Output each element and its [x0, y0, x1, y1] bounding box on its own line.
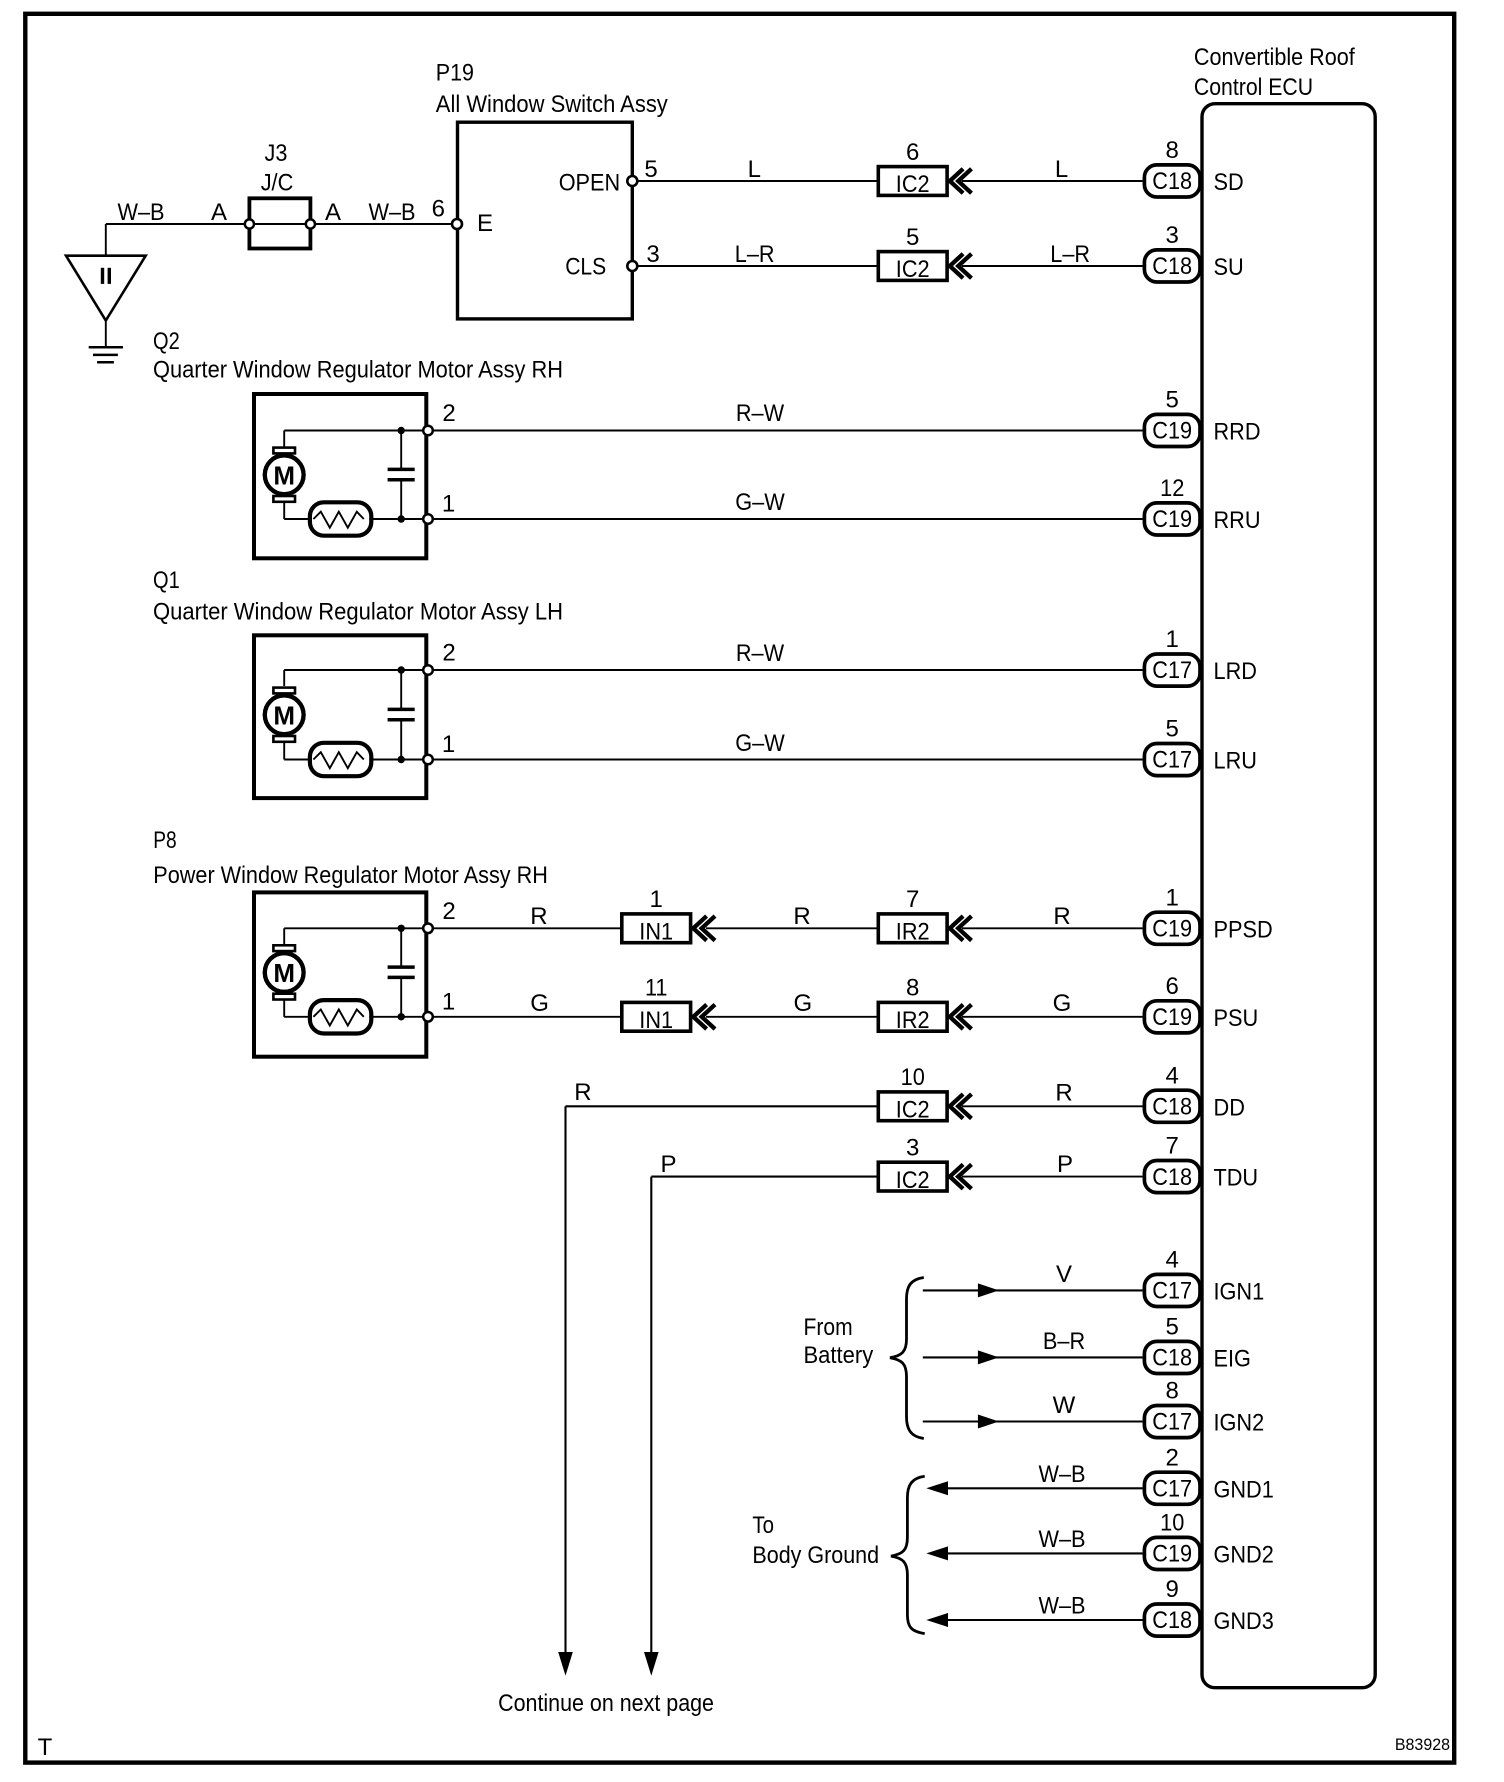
connector C18 pin 7 (TDU) [1144, 1161, 1200, 1193]
svg-text:EIG: EIG [1214, 1345, 1251, 1372]
pin 2 terminal [423, 426, 433, 436]
svg-text:IGN2: IGN2 [1214, 1410, 1265, 1437]
svg-text:R–W: R–W [736, 640, 785, 667]
circuit breaker (thermistor) [310, 743, 371, 776]
svg-text:IC2: IC2 [896, 1097, 930, 1124]
svg-text:C18: C18 [1152, 253, 1192, 280]
wire motor bottom through breaker to pin 1 [283, 502, 285, 519]
svg-text:M: M [273, 700, 295, 730]
svg-text:J/C: J/C [261, 170, 294, 197]
svg-text:L–R: L–R [735, 241, 775, 268]
svg-text:11: 11 [645, 975, 668, 1002]
wire G: IN1 to IR2 [706, 1016, 877, 1018]
svg-text:PPSD: PPSD [1214, 916, 1273, 943]
motor M [265, 695, 304, 734]
wire V from battery to IGN1 [923, 1289, 1143, 1291]
svg-text:G: G [530, 990, 549, 1017]
connector C17 pin 1 (LRD) [1144, 654, 1200, 686]
svg-text:R: R [1055, 1080, 1072, 1107]
connector IR2 pin 7 [878, 914, 947, 943]
capacitor [400, 928, 402, 967]
svg-text:4: 4 [1166, 1062, 1179, 1089]
svg-text:G: G [1053, 990, 1072, 1017]
svg-text:C19: C19 [1152, 1004, 1192, 1031]
svg-text:E: E [477, 210, 493, 237]
wire W-B GND1 to body ground [944, 1487, 1143, 1489]
ECU box: Convertible Roof Control ECU [1202, 104, 1375, 1688]
chevron arrow at IC2 [950, 254, 963, 278]
junction dots [398, 666, 405, 673]
svg-text:To: To [752, 1512, 774, 1539]
svg-text:10: 10 [901, 1064, 925, 1091]
motor M [265, 455, 304, 494]
chevron arrow at IN1 [693, 1005, 706, 1029]
svg-text:J3: J3 [265, 140, 288, 167]
brace To Body Ground [891, 1476, 925, 1633]
wire P to next page, corner to IC2 [651, 1176, 876, 1178]
svg-text:2: 2 [1166, 1444, 1179, 1471]
svg-text:Quarter Window Regulator Motor: Quarter Window Regulator Motor Assy RH [153, 357, 563, 384]
wire R to next page, corner to IC2 [566, 1105, 877, 1107]
connector IC2 pin 3 [878, 1162, 947, 1191]
connector C17 pin 8 (IGN2) [1144, 1406, 1200, 1438]
connector C19 pin 1 (PPSD) [1144, 912, 1200, 944]
pin 1 terminal [423, 1012, 433, 1022]
svg-text:OPEN: OPEN [559, 169, 620, 196]
svg-text:W: W [1053, 1392, 1076, 1419]
wire B–R from battery to EIG [923, 1356, 1143, 1358]
connector C17 pin 4 (IGN1) [1144, 1274, 1200, 1306]
wire motor top to pin 2 [283, 928, 285, 944]
connector IC2 pin 5 [878, 252, 947, 281]
svg-text:TDU: TDU [1214, 1165, 1259, 1192]
wire W from battery to IGN2 [923, 1420, 1143, 1422]
junction terminals A-A [245, 219, 254, 228]
continuation arrow R [558, 1652, 573, 1676]
svg-text:1: 1 [1166, 626, 1179, 653]
svg-text:C18: C18 [1152, 1345, 1192, 1372]
svg-text:SU: SU [1214, 254, 1244, 281]
svg-text:R: R [1053, 903, 1070, 930]
wire G-W: Q1 pin 1 to C17 [433, 759, 1142, 761]
wire R-W: Q2 pin 2 to C19 [433, 430, 1142, 432]
svg-text:C19: C19 [1152, 916, 1192, 943]
svg-text:P: P [660, 1151, 676, 1178]
connector IC2 pin 6 [878, 167, 947, 196]
svg-text:Control ECU: Control ECU [1194, 74, 1313, 101]
svg-text:5: 5 [906, 224, 919, 251]
svg-text:T: T [38, 1734, 53, 1761]
svg-text:R: R [530, 903, 547, 930]
svg-text:DD: DD [1214, 1094, 1245, 1121]
chevron arrow at IC2 [950, 1094, 963, 1118]
svg-text:G: G [793, 990, 812, 1017]
svg-text:PSU: PSU [1214, 1005, 1259, 1032]
svg-text:A: A [211, 199, 227, 226]
svg-text:GND3: GND3 [1214, 1608, 1274, 1635]
svg-text:3: 3 [1166, 222, 1179, 249]
svg-text:5: 5 [1166, 1314, 1179, 1341]
brace From Battery [890, 1278, 924, 1439]
wire motor bottom through breaker to pin 1 [283, 743, 285, 760]
wire W-B GND3 to body ground [944, 1619, 1143, 1621]
svg-text:1: 1 [442, 731, 455, 758]
wire W-B GND2 to body ground [944, 1552, 1143, 1554]
wire L-R: IC2 to C18 [962, 265, 1143, 267]
wire P: IC2 to C18 [962, 1176, 1143, 1178]
connector C18 pin 9 (GND3) [1144, 1604, 1200, 1636]
svg-text:SD: SD [1214, 169, 1244, 196]
wire R: IR2 to C19 [962, 927, 1143, 929]
wire R: IC2 to C18 [962, 1105, 1143, 1107]
pin 2 terminal [423, 924, 433, 934]
svg-text:5: 5 [644, 156, 657, 183]
svg-text:1: 1 [442, 988, 455, 1015]
svg-text:C18: C18 [1152, 1164, 1192, 1191]
connector IN1 pin 11 [622, 1002, 691, 1031]
wire G: P8 pin 1 to IN1 [433, 1016, 620, 1018]
connector C18 pin 4 (DD) [1144, 1090, 1200, 1122]
svg-text:4: 4 [1166, 1247, 1179, 1274]
svg-text:3: 3 [906, 1134, 919, 1161]
svg-text:Quarter Window Regulator Motor: Quarter Window Regulator Motor Assy LH [153, 599, 563, 626]
circuit breaker (thermistor) [310, 502, 371, 535]
connector C19 pin 12 (RRU) [1144, 503, 1200, 535]
svg-text:All Window Switch Assy: All Window Switch Assy [436, 91, 668, 118]
svg-text:R: R [793, 903, 810, 930]
connector C19 pin 10 (GND2) [1144, 1537, 1200, 1569]
svg-text:IGN1: IGN1 [1214, 1278, 1265, 1305]
wire R-W: Q1 pin 2 to C17 [433, 669, 1142, 671]
svg-text:Power Window Regulator Motor A: Power Window Regulator Motor Assy RH [153, 862, 548, 889]
wire W-B J3 to P19 pin 6 (E) [312, 223, 457, 225]
svg-text:L–R: L–R [1050, 241, 1090, 268]
chevron arrow at IC2 [950, 169, 963, 193]
connector C18 pin 8 (SD) [1144, 165, 1200, 197]
svg-text:5: 5 [1166, 387, 1179, 414]
svg-text:Battery: Battery [804, 1342, 874, 1369]
connector IC2 pin 10 [878, 1092, 947, 1121]
connector C18 pin 3 (SU) [1144, 250, 1200, 282]
svg-text:B–R: B–R [1043, 1328, 1085, 1355]
pin 1 terminal [423, 514, 433, 524]
svg-text:From: From [804, 1314, 853, 1341]
svg-text:5: 5 [1166, 716, 1179, 743]
svg-text:LRD: LRD [1214, 658, 1257, 685]
svg-text:Body Ground: Body Ground [752, 1542, 879, 1569]
svg-text:M: M [273, 958, 295, 988]
circuit breaker (thermistor) [310, 1000, 371, 1033]
svg-text:7: 7 [1166, 1133, 1179, 1160]
svg-text:C17: C17 [1152, 747, 1192, 774]
svg-text:IR2: IR2 [896, 919, 930, 946]
svg-text:LRU: LRU [1214, 748, 1257, 775]
svg-text:10: 10 [1160, 1510, 1184, 1537]
junction connector J3 J/C [249, 198, 310, 248]
svg-text:V: V [1056, 1261, 1072, 1288]
svg-text:8: 8 [906, 975, 919, 1002]
connector IN1 pin 1 [622, 914, 691, 943]
svg-text:12: 12 [1160, 475, 1184, 502]
svg-text:Q2: Q2 [153, 328, 180, 355]
svg-text:P: P [1057, 1151, 1073, 1178]
svg-text:C18: C18 [1152, 1094, 1192, 1121]
svg-text:GND1: GND1 [1214, 1476, 1274, 1503]
svg-text:C18: C18 [1152, 168, 1192, 195]
svg-text:3: 3 [646, 241, 659, 268]
pin E [452, 219, 462, 229]
pin 1 terminal [423, 755, 433, 765]
capacitor [400, 431, 402, 470]
connector C19 pin 5 (RRD) [1144, 414, 1200, 446]
chevron arrow at IR2 [950, 1005, 963, 1029]
svg-text:CLS: CLS [565, 254, 606, 281]
connector C17 pin 2 (GND1) [1144, 1472, 1200, 1504]
chevron arrow at IR2 [950, 916, 963, 940]
svg-text:IC2: IC2 [896, 256, 930, 283]
motor M [265, 953, 304, 992]
svg-text:6: 6 [906, 139, 919, 166]
svg-text:IC2: IC2 [896, 1167, 930, 1194]
svg-text:8: 8 [1166, 1378, 1179, 1405]
svg-text:1: 1 [442, 491, 455, 518]
svg-text:GND2: GND2 [1214, 1541, 1274, 1568]
wire motor bottom through breaker to pin 1 [283, 1000, 285, 1017]
svg-text:C17: C17 [1152, 1278, 1192, 1305]
svg-text:W–B: W–B [117, 199, 164, 226]
connector IR2 pin 8 [878, 1002, 947, 1031]
wire R: IN1 to IR2 [706, 927, 877, 929]
capacitor [400, 670, 402, 709]
chevron arrow at IC2 [950, 1164, 963, 1188]
wire W-B ground to J3 [106, 223, 248, 225]
connector C17 pin 5 (LRU) [1144, 744, 1200, 776]
svg-text:L: L [1055, 156, 1068, 183]
wire G: IR2 to C19 [962, 1016, 1143, 1018]
svg-text:C19: C19 [1152, 1541, 1192, 1568]
svg-text:IN1: IN1 [639, 1007, 673, 1034]
svg-text:C19: C19 [1152, 506, 1192, 533]
pin 2 terminal [423, 665, 433, 675]
svg-text:Continue on next page: Continue on next page [498, 1690, 714, 1717]
svg-text:M: M [273, 460, 295, 490]
junction dots [398, 925, 405, 932]
svg-text:G–W: G–W [735, 730, 785, 757]
svg-text:9: 9 [1166, 1576, 1179, 1603]
svg-text:W–B: W–B [368, 199, 415, 226]
svg-text:RRD: RRD [1214, 419, 1261, 446]
svg-text:2: 2 [442, 640, 455, 667]
svg-text:2: 2 [442, 898, 455, 925]
svg-text:R–W: R–W [736, 400, 785, 427]
wire L: IC2 to C18 [962, 180, 1143, 182]
svg-text:C17: C17 [1152, 1409, 1192, 1436]
svg-text:A: A [325, 199, 341, 226]
svg-text:IR2: IR2 [896, 1007, 930, 1034]
svg-text:6: 6 [1166, 973, 1179, 1000]
wire motor top to pin 2 [283, 670, 285, 686]
svg-text:L: L [748, 156, 761, 183]
svg-text:C19: C19 [1152, 418, 1192, 445]
svg-text:C18: C18 [1152, 1607, 1192, 1634]
wire L-R: CLS to IC2 [638, 265, 876, 267]
svg-text:Q1: Q1 [153, 567, 180, 594]
svg-text:P8: P8 [153, 827, 176, 854]
ground symbol [105, 224, 107, 257]
svg-text:1: 1 [650, 886, 663, 913]
svg-text:P19: P19 [436, 60, 474, 87]
svg-text:IC2: IC2 [896, 171, 930, 198]
svg-text:G–W: G–W [735, 489, 785, 516]
chevron arrow at IN1 [693, 916, 706, 940]
svg-text:W–B: W–B [1038, 1526, 1085, 1553]
svg-text:W–B: W–B [1038, 1593, 1085, 1620]
svg-text:1: 1 [1166, 884, 1179, 911]
wire G-W: Q2 pin 1 to C19 [433, 518, 1142, 520]
connector C19 pin 6 (PSU) [1144, 1001, 1200, 1033]
svg-text:7: 7 [906, 886, 919, 913]
svg-text:8: 8 [1166, 137, 1179, 164]
connector C18 pin 5 (EIG) [1144, 1341, 1200, 1373]
svg-text:RRU: RRU [1214, 507, 1261, 534]
wire motor top to pin 2 [283, 431, 285, 447]
svg-text:IN1: IN1 [639, 919, 673, 946]
svg-text:6: 6 [432, 196, 445, 223]
continuation arrow P [644, 1652, 659, 1676]
svg-text:W–B: W–B [1038, 1461, 1085, 1488]
junction dots [398, 427, 405, 434]
wire L: OPEN to IC2 [638, 180, 876, 182]
svg-text:R: R [574, 1079, 591, 1106]
svg-text:2: 2 [442, 400, 455, 427]
svg-text:Convertible Roof: Convertible Roof [1194, 44, 1355, 71]
wire R: P8 pin 2 to IN1 [433, 927, 620, 929]
svg-text:C17: C17 [1152, 1476, 1192, 1503]
svg-text:B83928: B83928 [1395, 1735, 1450, 1754]
svg-text:C17: C17 [1152, 657, 1192, 684]
